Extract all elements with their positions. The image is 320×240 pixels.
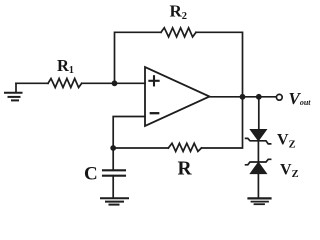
svg-text:VZ: VZ: [277, 132, 296, 151]
resistor R: [168, 143, 201, 151]
node C: [240, 94, 246, 100]
ground: [249, 198, 271, 204]
wire: [115, 32, 162, 83]
wire: [210, 96, 277, 98]
wire: [258, 97, 260, 130]
wire: [113, 147, 168, 149]
capacitor C1: [103, 148, 125, 198]
resistor R1: [48, 79, 82, 88]
ground: [101, 198, 128, 204]
node A: [112, 80, 118, 86]
svg-text:VZ: VZ: [280, 161, 299, 180]
wire: [202, 97, 243, 148]
svg-text:R1: R1: [57, 56, 74, 76]
wire: [196, 32, 243, 97]
wire: [257, 141, 259, 162]
svg-text:Vout: Vout: [289, 89, 312, 108]
resistor R2: [161, 28, 196, 37]
node B: [110, 145, 116, 151]
svg-text:R2: R2: [170, 2, 188, 23]
wire: [82, 82, 145, 84]
zener D2: [246, 159, 271, 173]
terminal Vout: [276, 94, 282, 100]
wire: [16, 82, 48, 84]
zener D1: [246, 130, 271, 144]
svg-text:R: R: [178, 159, 193, 180]
wire: [257, 174, 259, 198]
wire: [113, 117, 145, 149]
svg-text:C: C: [84, 164, 98, 185]
op-amp U1: [145, 67, 210, 126]
node D: [256, 94, 262, 100]
ground: [5, 83, 22, 100]
